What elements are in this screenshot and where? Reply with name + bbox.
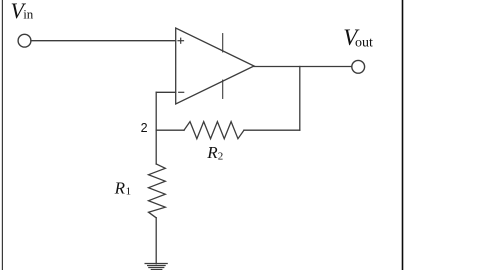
- svg-text:R: R: [114, 178, 126, 197]
- svg-text:in: in: [23, 6, 34, 21]
- svg-text:R: R: [206, 143, 218, 162]
- svg-text:out: out: [355, 35, 373, 50]
- svg-text:2: 2: [141, 121, 148, 135]
- svg-text:2: 2: [218, 151, 224, 163]
- svg-text:1: 1: [126, 186, 132, 198]
